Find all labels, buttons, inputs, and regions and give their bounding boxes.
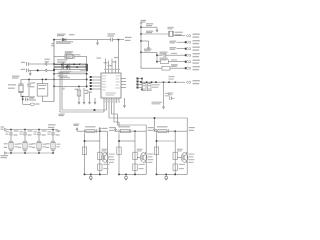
- label rbus gnd: [152, 102, 162, 103]
- label R10: [143, 85, 145, 86]
- junction quad bottom 3: [38, 152, 40, 154]
- label quad X1 right: [14, 144, 18, 145]
- junction xtal bottom: [22, 96, 24, 98]
- resistor R3: [77, 90, 81, 96]
- ground sub3: [165, 174, 168, 179]
- fuse F3: [157, 129, 169, 133]
- capacitor quad C3: [37, 133, 41, 135]
- label JP1 inside: [67, 55, 73, 56]
- wire MCU right pin 3: [121, 84, 126, 86]
- wire pad to MCU pin 2: [91, 79, 96, 81]
- junction cluster a: [61, 64, 63, 66]
- junction J1 pin 4: [185, 54, 187, 56]
- resistor R10 stub: [143, 82, 145, 84]
- wire D1 to cap: [66, 39, 111, 41]
- label U1 pins right: [116, 75, 120, 76]
- junction cluster r2a: [76, 66, 78, 68]
- label br1: [146, 23, 153, 24]
- wire right pin ext 3: [138, 84, 143, 86]
- label sub1 bottom R: [103, 164, 109, 165]
- label F1: [85, 126, 96, 127]
- label Y1: [12, 76, 20, 77]
- resistor R9: [162, 66, 170, 70]
- label quad C1 left: [5, 131, 9, 132]
- label top pin b: [108, 65, 112, 66]
- junction right join top: [141, 78, 143, 80]
- connector J2 box: [37, 84, 48, 97]
- crystal quad X3: [37, 141, 41, 150]
- capacitor C9: [170, 96, 175, 100]
- label net row2: [170, 41, 177, 42]
- label under cluster: [58, 73, 70, 74]
- junction cluster r1a: [73, 64, 75, 66]
- junction sub1 bot L: [84, 174, 86, 176]
- wire net row1: [174, 35, 185, 37]
- connector pin PWM: [186, 81, 191, 84]
- label leg3: [87, 92, 92, 93]
- wire right pin ext 2: [138, 81, 143, 83]
- crystal quad X2: [23, 141, 27, 150]
- connector GND left glyph: [5, 152, 7, 155]
- junction sub2 bot G: [125, 174, 127, 176]
- label R3: [75, 89, 79, 90]
- junction row3: [53, 69, 55, 71]
- resistor R10 box: [142, 84, 146, 91]
- resistor sub1 gate: [98, 152, 102, 159]
- wire sub1 collector: [106, 152, 107, 163]
- label quad X3: [32, 143, 36, 144]
- label Q3: [189, 154, 195, 155]
- label quad top right: [48, 124, 56, 125]
- junction rail r1: [140, 26, 142, 28]
- capacitor quad C1: [9, 133, 13, 135]
- wire MCU bottom pin 5: [113, 98, 115, 103]
- junction sub1 gate link: [84, 140, 86, 142]
- junction sub2 top M: [134, 130, 136, 132]
- label sub2 right net: [148, 127, 154, 128]
- wire row79: [54, 78, 87, 80]
- wire sub1 top: [77, 130, 108, 132]
- label power cluster: [57, 59, 67, 60]
- wire B horiz: [60, 111, 104, 113]
- junction quad bottom 2: [24, 152, 26, 154]
- label VCC flag: [141, 20, 147, 21]
- crystal quad X4: [51, 141, 55, 150]
- wire chain right: [27, 98, 29, 100]
- label F3: [157, 126, 168, 127]
- junction rbus 1d: [155, 81, 157, 83]
- label R9: [171, 64, 178, 65]
- junction right join bot: [141, 89, 143, 91]
- wire cap to node: [113, 39, 124, 41]
- pad MCU right 4: [137, 87, 139, 89]
- label TP1: [35, 103, 39, 104]
- resistor sub3 gate: [173, 152, 177, 159]
- wire A horiz: [62, 109, 107, 111]
- connector J1 pin 4: [186, 54, 191, 57]
- wire cluster row2: [54, 66, 86, 68]
- pad MCU right 1: [137, 78, 139, 80]
- label rbus gnd2: [165, 93, 170, 94]
- wire xtal bottom: [21, 96, 29, 98]
- label sub2 bottom R: [139, 164, 145, 165]
- connector pin BT+: [45, 63, 47, 66]
- wire row BT+ left: [29, 63, 45, 65]
- junction sub rail b: [156, 61, 158, 63]
- resistor sub2 gate: [133, 152, 137, 159]
- wire B vert left: [59, 72, 61, 112]
- wire D path: [112, 103, 147, 131]
- wire res row2 out: [170, 67, 185, 69]
- label R8: [160, 58, 168, 59]
- label sub1 mid arrow: [102, 128, 108, 129]
- junction VCC node: [118, 39, 120, 41]
- label top pin band: [104, 69, 120, 70]
- wire J2 bottom stub: [41, 96, 43, 101]
- label JP1 right: [75, 54, 81, 55]
- wire MCU left pin 4: [96, 85, 101, 87]
- wire quad bottom 3: [38, 150, 40, 153]
- wire rail br1: [141, 26, 157, 28]
- junction J2 top: [42, 79, 43, 80]
- wire chain down2: [22, 99, 24, 104]
- crystal quad X1: [9, 141, 13, 150]
- label quad C2 left: [19, 131, 23, 132]
- wire jumper to bus bar: [74, 55, 86, 57]
- wire MCU left pin 2: [96, 79, 101, 81]
- wire net row3: [177, 48, 186, 50]
- wire C3 feed stub: [154, 118, 156, 127]
- label C4: [21, 62, 25, 63]
- wire MCU left pin 3: [96, 82, 101, 84]
- wire quad bottom 1: [10, 150, 12, 153]
- VCC flag tick: [140, 22, 142, 24]
- wire VIN top: [54, 39, 62, 41]
- label net row5: [171, 59, 177, 60]
- junction pad 5: [90, 88, 92, 90]
- wire xtal top: [21, 78, 54, 80]
- capacitor quad C4: [51, 133, 55, 135]
- junction bus BT-: [53, 70, 55, 72]
- wire MCU bottom pin 2: [106, 98, 108, 103]
- junction sub rail a: [156, 54, 158, 56]
- wire rail br3: [141, 40, 149, 42]
- label C2b: [29, 99, 36, 100]
- wire MCU top pin 3: [111, 59, 113, 74]
- junction rbus 4: [175, 81, 177, 83]
- MCU U1 body: [101, 73, 121, 98]
- capacitor C7 vertical bars: [62, 63, 64, 69]
- junction xtal top box: [45, 79, 47, 81]
- label Y1 value: [8, 84, 16, 85]
- wire sub3 top: [154, 130, 188, 132]
- label net row6: [171, 66, 177, 67]
- wire sub3 bottom: [157, 173, 188, 175]
- label AB nets: [62, 86, 66, 87]
- label VBUS: [1, 126, 5, 127]
- wire quad bottom 4: [52, 150, 54, 153]
- wire cap C1 bottom: [28, 86, 30, 97]
- label top pin a: [104, 62, 108, 63]
- wire MCU top pin 2: [108, 61, 110, 74]
- wire res row: [157, 61, 161, 63]
- label quad X4: [46, 143, 50, 144]
- label +5V: [125, 37, 131, 38]
- wire MCU right pin 1: [121, 78, 126, 80]
- net arrow sub3 feed: [153, 127, 155, 131]
- bus bar header: [86, 64, 88, 71]
- junction chain: [22, 99, 24, 101]
- junction J1 pin 6: [185, 67, 187, 69]
- connector J1 pin 5: [186, 60, 191, 63]
- resistor sub3 left: [154, 147, 158, 155]
- wire MCU top pin 4: [114, 61, 116, 74]
- wire right pin ext 1: [138, 78, 143, 80]
- wire header rail: [86, 56, 88, 88]
- label net row4: [171, 53, 177, 54]
- label sub1 left: [74, 124, 80, 125]
- wire rail br4: [141, 51, 157, 53]
- label br4: [144, 49, 152, 50]
- junction bus row79: [53, 79, 55, 81]
- wire pad to MCU pin 1: [91, 76, 96, 78]
- wire B vert right: [103, 103, 105, 112]
- connector pin BT-: [45, 69, 47, 72]
- wire sub3 gate link: [157, 140, 176, 142]
- wire gnd leg3: [89, 93, 91, 100]
- resistor sub1 bottom: [98, 164, 102, 170]
- label U1 name: [106, 92, 116, 93]
- ground MCU right: [124, 98, 126, 103]
- wire sub3 rail M: [174, 131, 176, 174]
- label D1 value: [57, 34, 66, 35]
- wire bus left vertical: [53, 40, 55, 102]
- wire sub rail: [156, 52, 158, 61]
- resistor sub2 left: [117, 147, 121, 155]
- wire cap row out: [166, 54, 185, 56]
- ground MCU right arrow: [123, 103, 125, 107]
- label X2 text: [175, 32, 183, 33]
- label quad C3 left: [33, 131, 37, 132]
- label quad C2: [28, 130, 33, 131]
- wire E path: [114, 103, 119, 128]
- junction sub3 bot L: [156, 174, 158, 176]
- wire C path: [109, 103, 187, 131]
- label C1: [30, 82, 35, 83]
- junction rbus 1c: [151, 81, 153, 83]
- wire sub1 gate stub: [101, 157, 103, 159]
- wire sub3 rail R: [186, 131, 188, 174]
- crystal Y1: [18, 79, 23, 97]
- wire MCU right pin 2: [121, 81, 126, 83]
- wire sub3 collector: [186, 152, 187, 163]
- label quad X4 right: [56, 144, 60, 145]
- label quad X2: [18, 143, 22, 144]
- wire sub1 gate link: [85, 140, 100, 142]
- junction quad top 3: [38, 129, 40, 131]
- wire quad mid 2: [24, 135, 26, 141]
- junction cluster b: [66, 66, 68, 68]
- label top pin c: [113, 61, 117, 62]
- wire res row out: [169, 61, 186, 63]
- wire gnd leg1: [78, 86, 80, 100]
- label net row74: [60, 71, 71, 72]
- junction quad bottom 4: [52, 152, 54, 154]
- wire row86: [54, 85, 87, 87]
- wire quad bottom bus: [7, 152, 55, 154]
- wire sub1 rail M: [99, 131, 101, 174]
- junction pad 1: [90, 76, 92, 78]
- wire sub2 bottom: [119, 173, 146, 175]
- junction sub3 top M: [174, 130, 176, 132]
- junction BT- mid: [37, 70, 39, 72]
- wire MCU bottom pin 4: [111, 98, 113, 103]
- wire MCU left pin 1: [96, 76, 101, 78]
- fuse F1: [85, 129, 97, 133]
- wire sub1 rail L: [84, 133, 86, 174]
- junction xtal top c1: [28, 79, 30, 81]
- wire quad mid 1: [10, 135, 12, 141]
- wire gnd leg4: [94, 98, 96, 100]
- junction pad 2: [90, 79, 92, 81]
- label sub1 gate: [102, 149, 108, 150]
- wire quad bus hook: [57, 130, 58, 133]
- wire J2 to bus bottom: [42, 101, 54, 103]
- label sub2 gate: [137, 149, 143, 150]
- wire sub2 gate link: [119, 140, 135, 142]
- junction pad 3: [90, 82, 92, 84]
- junction hdr row79: [86, 79, 88, 81]
- label battery pins: [45, 59, 50, 60]
- ground leg4 arrow: [94, 100, 96, 104]
- wire A vert left: [61, 72, 63, 110]
- label J2 text: [38, 85, 46, 86]
- wire MCU left pin 5: [96, 88, 101, 90]
- junction sub3 bot M: [174, 174, 176, 176]
- junction rbus 1b: [146, 81, 148, 83]
- label quad C3: [42, 130, 47, 131]
- wire pad to MCU pin 3: [91, 82, 96, 84]
- capacitor C4: [27, 62, 29, 66]
- resistor sub3 bottom: [173, 164, 177, 170]
- wire row74: [54, 73, 87, 75]
- ground br1 arrow: [156, 27, 158, 32]
- wire sub2 rail R: [145, 131, 147, 174]
- label D1: [69, 34, 75, 35]
- wire A vert right: [106, 103, 108, 110]
- label net row79: [60, 77, 70, 78]
- wire right pin ext 4: [138, 87, 143, 89]
- wire quad top bus: [7, 129, 57, 131]
- junction quad top 4: [52, 129, 54, 131]
- ground leg3 arrow: [88, 100, 90, 104]
- wire quad mid 3: [38, 135, 40, 141]
- junction hdr row86: [86, 86, 88, 88]
- junction rail r3: [140, 40, 142, 42]
- junction C feed: [154, 117, 156, 119]
- wire cluster row4: [58, 71, 86, 73]
- resistor R11 box: [147, 84, 151, 91]
- label C5: [21, 69, 25, 70]
- junction bus row86: [53, 86, 55, 88]
- junction quad bottom 1: [10, 152, 12, 154]
- wire MCU bottom pin 1: [103, 98, 105, 103]
- ground br3 stub: [148, 41, 150, 45]
- diode D1: [62, 38, 66, 41]
- junction wire A: [94, 109, 96, 111]
- ground arrow: [96, 40, 98, 44]
- junction sub1 top M: [99, 130, 101, 132]
- wire BT- to bus: [47, 69, 54, 71]
- wire gnd leg2: [83, 88, 85, 100]
- ground br3 arrow: [147, 45, 149, 49]
- transistor Q2: [140, 153, 147, 163]
- wire net row2: [177, 41, 186, 43]
- junction quad top 1: [10, 129, 12, 131]
- resistor sub2 bottom: [133, 164, 137, 170]
- label quad X2 right: [28, 144, 32, 145]
- wire rbus down: [163, 82, 165, 104]
- test point TP1 oval: [30, 103, 34, 106]
- junction J1 pin 3: [185, 48, 187, 50]
- label X2 name: [168, 27, 174, 28]
- wire quad mid 4: [52, 135, 54, 141]
- wire sub2 collector: [145, 152, 146, 163]
- wire MCU bottom pin 7: [118, 98, 120, 103]
- label Q2: [148, 154, 154, 155]
- wire row BT- left: [29, 69, 45, 71]
- connector VBUS left glyph: [5, 128, 7, 131]
- pad MCU right 2: [137, 81, 139, 83]
- junction rail r2: [140, 33, 142, 35]
- junction pad 4: [90, 85, 92, 87]
- wire sub2 rail M: [134, 131, 136, 174]
- junction cluster r1b: [79, 64, 81, 66]
- wire sub3 rail L: [156, 133, 158, 174]
- wire quad drop 4: [52, 130, 54, 134]
- ground stub at C bank: [97, 40, 99, 41]
- wire sub2 top: [115, 130, 147, 132]
- label R11: [148, 85, 150, 86]
- junction bus row74: [53, 73, 55, 75]
- label sub3 right net: [189, 127, 195, 128]
- label C9: [168, 92, 173, 93]
- capacitor C5: [27, 69, 29, 73]
- label U1 bottom pins: [103, 99, 119, 100]
- label quad X3 right: [42, 144, 46, 145]
- label AVCC: [97, 58, 102, 59]
- wire cluster row3: [54, 69, 86, 71]
- ground leg1 arrow: [78, 100, 80, 104]
- wire rail br2: [141, 33, 168, 35]
- junction bus D1: [53, 39, 55, 41]
- wire J2 top stub: [41, 79, 43, 83]
- label quad C4: [56, 130, 61, 131]
- wire right bus: [142, 81, 175, 83]
- label rbus top: [169, 76, 175, 77]
- jumper JP1: [65, 54, 74, 59]
- wire BT+ to bus: [47, 63, 54, 65]
- wire chain down1: [22, 97, 24, 100]
- label quad gnd: [1, 155, 9, 156]
- junction sub2 bot M: [134, 174, 136, 176]
- wire sub3 gate stub: [177, 157, 181, 159]
- wire sub2 rail L: [118, 133, 120, 174]
- junction rbus 3: [168, 81, 170, 83]
- label F2: [120, 126, 131, 127]
- capacitor C2 series: [25, 98, 27, 102]
- junction rbus 2: [163, 81, 165, 83]
